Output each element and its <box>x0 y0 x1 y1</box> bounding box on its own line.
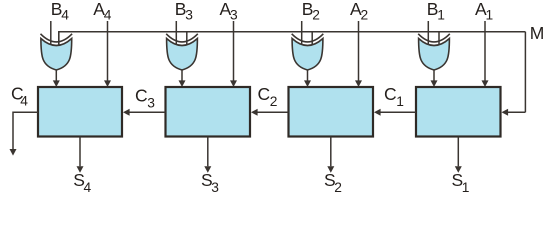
wire M carry-in into FA1 <box>507 111 525 113</box>
svg-text:1: 1 <box>396 94 404 109</box>
svg-text:1: 1 <box>437 8 445 23</box>
wire B1 input <box>427 21 429 45</box>
svg-text:C: C <box>384 84 397 104</box>
wire M vertical right side <box>524 32 526 113</box>
wire S2 output <box>330 137 332 167</box>
wire A4 input <box>107 21 109 85</box>
svg-text:4: 4 <box>61 8 69 23</box>
svg-text:4: 4 <box>104 8 112 23</box>
svg-text:C: C <box>135 86 148 106</box>
wire M bus horizontal <box>59 32 526 45</box>
xor gate U2 <box>292 34 324 70</box>
svg-text:2: 2 <box>361 8 369 23</box>
svg-text:1: 1 <box>462 180 470 195</box>
wire M stub into XOR U2 <box>311 32 313 45</box>
svg-text:2: 2 <box>270 94 278 109</box>
wire carry C2 <box>256 111 289 113</box>
full adder FA3 <box>166 87 251 137</box>
wire B3 input <box>175 21 177 45</box>
svg-text:1: 1 <box>486 8 494 23</box>
wire B4 input <box>50 21 52 45</box>
wire carry C1 <box>379 111 416 113</box>
svg-text:3: 3 <box>211 180 219 195</box>
wire A2 input <box>358 21 360 85</box>
wire XOR U1 output <box>433 70 435 85</box>
svg-text:C: C <box>258 84 271 104</box>
wire S1 output <box>457 137 459 167</box>
wire carry C3 <box>128 111 166 113</box>
wire A3 input <box>233 21 235 85</box>
wire XOR U2 output <box>307 70 309 85</box>
wire M stub into XOR U4 <box>58 32 60 45</box>
wire A1 input <box>484 21 486 85</box>
svg-text:2: 2 <box>334 180 342 195</box>
xor gate U1 <box>418 34 450 70</box>
full adder FA1 <box>416 87 501 137</box>
xor gate U4 <box>41 34 73 70</box>
wire carry out C4 <box>13 112 38 149</box>
wire XOR U3 output <box>181 70 183 85</box>
wire S4 output <box>79 137 81 167</box>
wire S3 output <box>207 137 209 167</box>
full adder FA2 <box>289 87 374 137</box>
svg-text:M: M <box>530 23 545 43</box>
wire B2 input <box>301 21 303 45</box>
wire XOR U4 output <box>55 70 57 85</box>
full adder FA4 <box>38 87 122 137</box>
svg-text:3: 3 <box>230 8 238 23</box>
svg-text:4: 4 <box>84 180 92 195</box>
svg-text:3: 3 <box>185 8 193 23</box>
svg-text:3: 3 <box>147 96 155 111</box>
wire M stub into XOR U1 <box>438 32 440 45</box>
xor gate U3 <box>166 34 198 70</box>
wire M stub into XOR U3 <box>186 32 188 45</box>
svg-text:4: 4 <box>20 94 28 109</box>
svg-text:2: 2 <box>312 8 320 23</box>
